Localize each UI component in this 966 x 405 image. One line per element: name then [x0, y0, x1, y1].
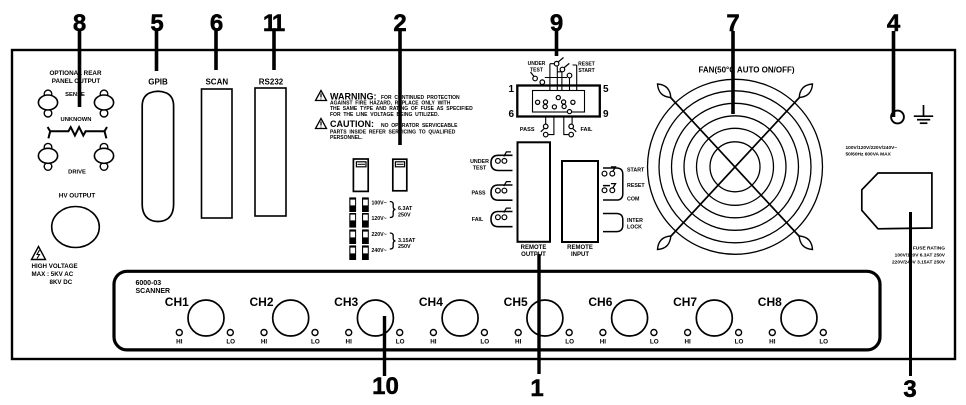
scanner box: [114, 271, 880, 350]
interlock label: [627, 218, 643, 231]
RS232 connector: [255, 88, 286, 216]
fuse rating lower: [398, 238, 416, 250]
svg-text:NO OPERATOR SERVICEABLE: NO OPERATOR SERVICEABLE: [381, 123, 458, 129]
AC inlet: [862, 173, 932, 229]
SCAN connector: [202, 89, 233, 218]
fan corner ear top-left: [658, 84, 671, 98]
svg-text:START: START: [578, 68, 594, 74]
callout 1 line: [537, 254, 540, 374]
channel CH5: [504, 295, 574, 346]
svg-text:240V~: 240V~: [372, 248, 387, 254]
remote pinout wiring top: [545, 64, 577, 91]
optional rear panel output label: [49, 70, 101, 85]
svg-text:220V/240V 3.15AT 250V: 220V/240V 3.15AT 250V: [892, 260, 946, 266]
svg-text:FOR THE LINE VOLTAGE BEING UTI: FOR THE LINE VOLTAGE BEING UTILIZED.: [330, 112, 440, 118]
svg-text:PANEL OUTPUT: PANEL OUTPUT: [52, 78, 101, 85]
svg-text:250V: 250V: [398, 212, 411, 218]
svg-text:LO: LO: [735, 339, 744, 346]
warning body text: [330, 95, 473, 118]
channel CH8: [758, 295, 828, 346]
callout 4 line: [892, 31, 896, 117]
voltage labels: [372, 201, 387, 255]
svg-text:TEST: TEST: [530, 68, 543, 74]
voltage selector switch row 220V: [349, 229, 369, 244]
svg-text:6.3AT: 6.3AT: [398, 206, 413, 212]
drive binding post right: [94, 143, 113, 170]
svg-text:RS232: RS232: [259, 78, 284, 87]
svg-text:HI: HI: [346, 339, 353, 346]
svg-text:FAN(50°C AUTO ON/OFF): FAN(50°C AUTO ON/OFF): [698, 65, 794, 74]
drive binding post left: [38, 143, 57, 170]
callout 10 line: [383, 316, 386, 376]
svg-text:RESET: RESET: [578, 62, 595, 68]
voltage selector switch row 100V: [349, 197, 369, 212]
svg-text:CH6: CH6: [588, 295, 612, 309]
scanner label: [136, 280, 171, 295]
panel outline: [12, 50, 955, 359]
svg-text:3.15AT: 3.15AT: [398, 238, 416, 244]
svg-text:250V: 250V: [398, 244, 411, 250]
remote pinout: under test label: [528, 61, 546, 74]
svg-text:10: 10: [372, 373, 399, 400]
fail switch contacts: [569, 124, 574, 137]
start contacts: [602, 171, 615, 176]
svg-text:50/60Hz 600VA MAX: 50/60Hz 600VA MAX: [846, 152, 892, 158]
fail bracket: [491, 212, 513, 227]
remote input connector: [562, 161, 598, 242]
remote connector inner body: [533, 91, 585, 113]
channel CH7: [673, 295, 743, 346]
callout 8 line: [78, 31, 82, 107]
under test bracket: [491, 155, 513, 170]
svg-text:CH2: CH2: [249, 295, 273, 309]
callout 6 line: [214, 31, 218, 70]
svg-text:9: 9: [603, 109, 609, 120]
voltage selector switch row 240V: [349, 245, 369, 260]
connector pins: [536, 96, 576, 114]
svg-text:REMOTE: REMOTE: [521, 245, 547, 251]
caution triangle icon: [316, 119, 327, 129]
remote pinout: reset start label: [578, 62, 595, 75]
fuse rating upper: [398, 206, 413, 218]
svg-text:120V~: 120V~: [372, 216, 387, 222]
svg-text:LO: LO: [396, 339, 405, 346]
channel CH1: [165, 295, 235, 346]
fan cross brace: [659, 85, 811, 249]
callout 11 line: [272, 31, 276, 70]
svg-text:8KV DC: 8KV DC: [50, 279, 73, 286]
under test switch contacts: [533, 76, 545, 84]
svg-text:HI: HI: [684, 339, 691, 346]
warning triangle icon: [316, 91, 327, 101]
remote pinout wiring bottom: [546, 117, 572, 135]
svg-text:UNDER: UNDER: [528, 61, 546, 67]
svg-text:CH8: CH8: [758, 295, 782, 309]
svg-text:TEST: TEST: [473, 165, 487, 171]
channel CH3: [334, 295, 404, 346]
svg-text:100V/120V 6.3AT 250V: 100V/120V 6.3AT 250V: [895, 253, 946, 259]
fuse rating text: [892, 246, 946, 266]
fan corner ear bottom-right: [799, 236, 812, 250]
remote pinout top switch contacts: [554, 61, 572, 77]
callout 2 line: [398, 31, 402, 145]
fan corner ear bottom-left: [658, 236, 671, 250]
pass switch contacts: [543, 124, 548, 137]
svg-text:INPUT: INPUT: [571, 252, 589, 258]
svg-text:FUSE RATING: FUSE RATING: [913, 246, 945, 252]
svg-text:PERSONNEL.: PERSONNEL.: [330, 135, 363, 141]
HV output connector circle: [52, 207, 100, 248]
remote output connector: [518, 142, 551, 242]
voltage selector switch row 120V: [349, 213, 369, 228]
interlock bracket: [603, 214, 623, 232]
svg-text:SCAN: SCAN: [205, 78, 228, 87]
svg-text:LO: LO: [226, 339, 235, 346]
caution body text: [330, 123, 458, 141]
svg-text:220V~: 220V~: [372, 232, 387, 238]
svg-text:5: 5: [603, 84, 609, 95]
svg-text:3: 3: [903, 376, 916, 403]
svg-text:LO: LO: [650, 339, 659, 346]
svg-text:HI: HI: [430, 339, 437, 346]
under test label: [470, 159, 489, 171]
callout 7 line: [731, 31, 735, 114]
under test contacts: [496, 159, 507, 164]
fuse holder right: [393, 159, 407, 191]
remote connector outer body: [517, 86, 600, 117]
svg-text:LO: LO: [819, 339, 828, 346]
svg-text:CAUTION:: CAUTION:: [330, 119, 374, 129]
start reset com bracket: [603, 168, 623, 200]
svg-text:FAIL: FAIL: [581, 127, 594, 133]
fan corner ear top-right: [799, 84, 812, 98]
fuse holder left: [353, 159, 368, 191]
svg-text:HIGH VOLTAGE: HIGH VOLTAGE: [32, 263, 78, 270]
svg-text:CH5: CH5: [504, 295, 528, 309]
remote output label: [521, 245, 547, 258]
svg-text:UNKNOWN: UNKNOWN: [61, 117, 92, 123]
svg-text:GPIB: GPIB: [148, 78, 168, 87]
fail contacts: [496, 215, 507, 220]
pass bracket: [491, 185, 513, 200]
svg-text:CH3: CH3: [334, 295, 358, 309]
pass contacts: [496, 188, 507, 193]
channel CH4: [419, 295, 489, 346]
svg-text:CH7: CH7: [673, 295, 697, 309]
resistor symbol (unknown DUT): [48, 127, 107, 138]
svg-text:CH1: CH1: [165, 295, 189, 309]
svg-text:COM: COM: [627, 197, 640, 203]
svg-text:6: 6: [508, 109, 514, 120]
sense binding post left: [38, 90, 57, 117]
GPIB connector: [142, 91, 173, 221]
svg-text:100V/120V/220V/240V~: 100V/120V/220V/240V~: [846, 145, 898, 151]
svg-text:OPTIONAL REAR: OPTIONAL REAR: [49, 70, 101, 77]
callout 9 line: [555, 31, 559, 56]
ground screw: [891, 111, 904, 124]
svg-text:SENSE: SENSE: [65, 92, 85, 98]
svg-text:LOCK: LOCK: [627, 225, 642, 231]
svg-text:100V~: 100V~: [372, 201, 387, 207]
svg-text:HI: HI: [176, 339, 183, 346]
svg-text:SCANNER: SCANNER: [136, 288, 171, 295]
svg-text:UNDER: UNDER: [470, 159, 489, 165]
svg-text:LO: LO: [480, 339, 489, 346]
channel CH2: [249, 295, 319, 346]
svg-text:START: START: [627, 168, 645, 174]
high voltage text: [32, 263, 78, 286]
fuse brace lower: [390, 233, 396, 249]
svg-text:FAIL: FAIL: [472, 217, 484, 223]
svg-text:MAX : 5KV AC: MAX : 5KV AC: [32, 271, 74, 278]
reset contacts: [602, 188, 615, 193]
svg-text:DRIVE: DRIVE: [68, 170, 86, 176]
svg-text:HI: HI: [515, 339, 522, 346]
callout 5 line: [155, 31, 159, 71]
fan grille rings: [648, 79, 823, 254]
svg-text:HI: HI: [769, 339, 776, 346]
svg-text:6000-03: 6000-03: [136, 280, 162, 287]
sense binding post right: [94, 90, 113, 117]
callout 3 line: [909, 212, 912, 376]
svg-text:HV OUTPUT: HV OUTPUT: [59, 193, 96, 200]
high voltage warning triangle: [32, 247, 46, 260]
svg-text:REMOTE: REMOTE: [567, 245, 593, 251]
svg-text:RESET: RESET: [627, 183, 645, 189]
fuse brace upper: [390, 202, 396, 218]
line voltage text: [846, 145, 898, 158]
svg-text:HI: HI: [261, 339, 268, 346]
svg-text:INTER: INTER: [627, 218, 643, 224]
channel CH6: [588, 295, 658, 346]
svg-text:1: 1: [508, 84, 514, 95]
svg-text:HI: HI: [600, 339, 607, 346]
svg-text:LO: LO: [311, 339, 320, 346]
svg-text:OUTPUT: OUTPUT: [521, 252, 546, 258]
svg-text:PASS: PASS: [471, 191, 485, 197]
svg-text:LO: LO: [565, 339, 574, 346]
svg-text:1: 1: [530, 375, 543, 402]
svg-text:CH4: CH4: [419, 295, 443, 309]
remote input label: [567, 245, 593, 258]
svg-text:PASS: PASS: [520, 127, 535, 133]
ground symbol: [914, 105, 933, 123]
